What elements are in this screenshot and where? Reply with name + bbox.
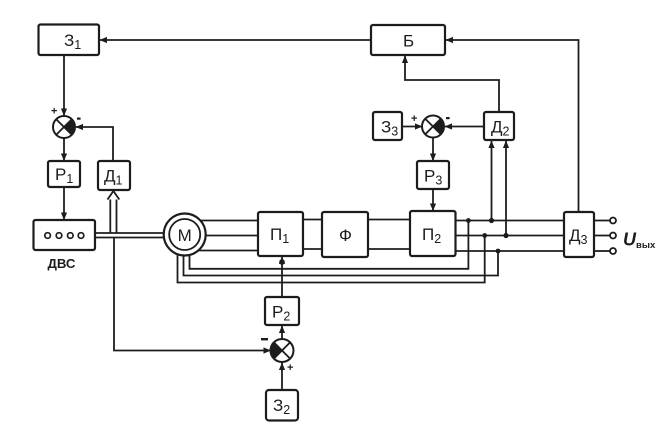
block R3 — [417, 161, 449, 189]
phase line 3 M to P1 — [196, 250, 258, 252]
block D3 — [564, 212, 594, 257]
arrow into P2 top — [430, 204, 436, 212]
wire D1 to sum1 — [76, 127, 113, 161]
shaft DVS to M double line — [95, 232, 168, 234]
arrow into D2 input2 — [503, 141, 509, 149]
wire tap2 up to D2 input2 — [505, 141, 507, 236]
wire R3 to P2 — [432, 189, 434, 211]
phase line 2 P2 to D3 — [456, 235, 565, 237]
wire sum1 to R1 — [63, 138, 65, 161]
block Z3 — [373, 112, 402, 140]
wire sum3 to R3 — [432, 138, 434, 162]
block B — [371, 25, 445, 55]
block R1 — [48, 161, 80, 187]
arrow into DVS — [61, 213, 67, 221]
block R2 — [265, 297, 299, 325]
arrow into sum3 right — [445, 123, 453, 129]
lines F to P2 — [368, 219, 410, 221]
svg-text:Б: Б — [403, 32, 414, 51]
wire R2 up to P1 — [281, 257, 283, 298]
arrowheads — [61, 37, 509, 370]
D3 output terminal 1 — [594, 220, 610, 222]
block F — [322, 212, 368, 257]
summing junction 3 — [411, 113, 450, 138]
arrow into sum2 left — [264, 347, 272, 353]
junction dot D2 tap on phase line 2 — [503, 233, 508, 238]
wire D2 to B bottom — [405, 56, 499, 112]
wire Z2 to sum2 — [281, 363, 283, 391]
arrow into B right — [446, 37, 454, 43]
wire Z1 to sum1 — [63, 55, 65, 116]
arrow into sum2 bottom — [279, 363, 285, 371]
arrow into Z1 right — [100, 37, 108, 43]
svg-text:+: + — [411, 113, 417, 125]
D3 output terminal 3 — [594, 250, 610, 252]
arrow into P1 bottom — [279, 257, 285, 265]
phase line 1 M to P1 — [196, 220, 258, 222]
wire R1 to DVS — [63, 187, 65, 220]
summing junction 1 — [51, 106, 81, 139]
tachometer double line up to D1 — [109, 198, 111, 233]
phase line 3 P2 to D3 — [456, 250, 565, 252]
DVS pistons — [45, 233, 84, 239]
block Z2 — [266, 390, 298, 421]
wire Z3 to sum3 — [402, 126, 422, 128]
wire D3 to B right side — [446, 40, 579, 212]
junction dot D2 tap on phase line 1 — [489, 218, 494, 223]
junction dots — [279, 218, 508, 265]
D3 output terminal 2 — [594, 235, 610, 237]
arrow into sum3 left — [415, 123, 423, 129]
block D2 — [484, 112, 514, 140]
junction dot feedback tap on phase line 3 — [496, 249, 501, 254]
feedback wire phase1 to M bottom inner — [190, 221, 469, 269]
block DVS — [34, 220, 96, 250]
junction dot feedback tap on phase line 1 — [466, 218, 471, 223]
arrow into sum1 right — [76, 124, 84, 130]
svg-text:+: + — [51, 106, 57, 118]
junction dot feedback tap on phase line 2 — [482, 233, 487, 238]
block P2 — [410, 211, 456, 256]
svg-text:ДВС: ДВС — [48, 256, 76, 271]
wire sum2 to R2 — [281, 326, 283, 340]
arrow into sum1 top — [61, 109, 67, 117]
svg-text:Uвых: Uвых — [623, 230, 656, 252]
phase line 2 M to P1 — [204, 235, 258, 237]
wire B to Z1 — [100, 39, 371, 41]
svg-text:М: М — [178, 226, 192, 245]
shaft tap down to sum2 — [114, 238, 271, 351]
arrow into R2 — [279, 326, 285, 334]
arrow into R3 — [430, 154, 436, 162]
summing junction 2 — [261, 338, 294, 374]
arrow into D2 input1 — [488, 141, 494, 149]
open arrowhead into D1 — [108, 191, 120, 200]
phase line 1 P2 to D3 — [456, 220, 565, 222]
block Z1 — [39, 25, 100, 56]
wire tap1 up to D2 input1 — [491, 141, 493, 221]
junction dot on R2-P1 wire — [279, 259, 285, 265]
feedback wire phase3 to M bottom mid — [184, 250, 499, 276]
arrow into R1 — [61, 154, 67, 162]
motor M — [164, 214, 206, 256]
block P1 — [258, 212, 303, 256]
svg-text:+: + — [287, 362, 293, 374]
block D1 — [98, 161, 130, 190]
lines P1 to F — [303, 219, 322, 221]
wire D2 to sum3 — [445, 126, 484, 128]
arrow into B bottom — [402, 56, 408, 64]
feedback wire phase2 to M bottom outer — [178, 236, 485, 283]
svg-text:Ф: Ф — [339, 226, 352, 245]
